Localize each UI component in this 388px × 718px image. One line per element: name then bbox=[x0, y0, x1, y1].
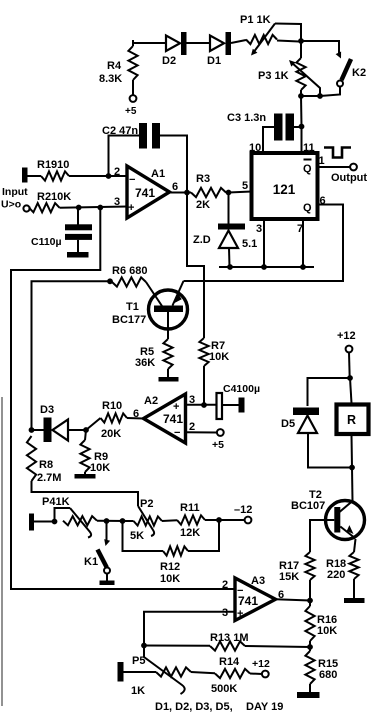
svg-text:741: 741 bbox=[163, 412, 183, 426]
wire input bar to R1 bbox=[28, 175, 42, 177]
junction K1 top bbox=[104, 518, 110, 524]
relay R box bbox=[337, 405, 369, 435]
wire P2 to R11 bbox=[162, 519, 177, 522]
svg-text:121: 121 bbox=[273, 182, 296, 197]
svg-text:R1910: R1910 bbox=[37, 159, 69, 171]
svg-text:+: + bbox=[173, 401, 179, 413]
T2 collector lead diagonal bbox=[340, 501, 353, 512]
svg-text:D2: D2 bbox=[162, 55, 176, 67]
svg-text:1: 1 bbox=[319, 155, 325, 167]
wire pin7 down bbox=[302, 219, 304, 267]
wire C2 left leg bbox=[109, 136, 140, 177]
resistor R9 bbox=[80, 440, 89, 472]
junction R3/zener bbox=[226, 190, 232, 196]
svg-text:Q: Q bbox=[303, 202, 312, 214]
wire R2 to pin3 of A1 bbox=[60, 207, 128, 208]
resistor R2 bbox=[29, 203, 60, 212]
resistor R13 bbox=[210, 641, 245, 650]
wire R18 bottom bbox=[353, 579, 355, 599]
wire P5 to R14 bbox=[191, 672, 215, 673]
potentiometer P2 wiper diagonal bbox=[138, 506, 154, 536]
switch K2 blade bbox=[342, 59, 352, 80]
wire P1 wiper bridge bbox=[275, 24, 301, 42]
wire relay bottom lead bbox=[351, 435, 354, 468]
resistor R8 bbox=[27, 436, 36, 481]
wire relay top lead bbox=[350, 378, 352, 403]
resistor R14 bbox=[215, 669, 250, 678]
capacitor C3 left plate bbox=[274, 114, 283, 141]
diode D1 triangle bbox=[210, 36, 224, 52]
potentiometer P3 wiper diagonal bbox=[291, 62, 320, 96]
svg-text:R8: R8 bbox=[39, 459, 53, 471]
page edge artifact line bbox=[1, 397, 3, 706]
wire D1 to P1 bbox=[231, 40, 246, 43]
capacitor C3 right plate bbox=[286, 114, 295, 141]
junction R11/R12 bbox=[216, 517, 222, 523]
svg-text:+5: +5 bbox=[125, 106, 137, 117]
svg-text:–12: –12 bbox=[234, 504, 252, 516]
wire ground bus under 121 bbox=[219, 266, 314, 268]
wire A3 output bbox=[276, 599, 311, 600]
terminal +5 at A2 bbox=[217, 429, 224, 436]
op-amp A1 bbox=[127, 166, 170, 218]
junction feedback tap bbox=[97, 205, 103, 211]
svg-text:Input: Input bbox=[2, 186, 28, 198]
wire A2 out to R10 bbox=[127, 417, 144, 420]
svg-text:P2: P2 bbox=[140, 498, 153, 510]
wire D2 to D1 bbox=[187, 42, 211, 44]
svg-text:−: − bbox=[237, 585, 243, 597]
T1 base lead diagonal bbox=[146, 282, 162, 306]
svg-text:K1: K1 bbox=[84, 556, 98, 568]
junction P5/R13 bbox=[141, 643, 147, 649]
svg-text:680: 680 bbox=[319, 669, 337, 681]
resistor R16 bbox=[305, 606, 314, 641]
switch K2 fixed contact arrow bbox=[336, 52, 342, 59]
wire pin11 down bbox=[301, 127, 303, 154]
ground bar below K1 bbox=[100, 581, 115, 586]
junction A3 out/R17/R16 bbox=[307, 598, 313, 604]
junction P2/R12 bbox=[120, 518, 126, 524]
diode D3 cathode bar bbox=[44, 418, 52, 443]
resistor R15 bbox=[305, 651, 314, 684]
wire D5 bottom bbox=[308, 433, 352, 468]
op-amp A3 bbox=[235, 578, 276, 621]
wire zener bottom lead bbox=[228, 248, 231, 267]
junction P4 left bbox=[52, 519, 58, 525]
wire T2 base to R17 bbox=[310, 520, 334, 552]
wire pin1 to output bbox=[318, 166, 351, 168]
svg-text:2: 2 bbox=[114, 166, 120, 178]
svg-text:R12: R12 bbox=[160, 561, 180, 573]
IC U1 monostable 121 box bbox=[252, 153, 318, 219]
svg-text:10K: 10K bbox=[209, 351, 229, 363]
svg-text:R210K: R210K bbox=[37, 191, 71, 203]
resistor R18 bbox=[349, 552, 358, 579]
wire R9 top lead bbox=[85, 430, 86, 440]
wire R1 to pin2 bbox=[69, 175, 127, 177]
svg-text:20K: 20K bbox=[101, 428, 121, 440]
capacitor C2 right plate bbox=[152, 123, 160, 149]
junction pin3/bus bbox=[261, 264, 267, 270]
resistor R6 bbox=[112, 277, 146, 286]
wire P3 bottom lead bbox=[300, 90, 302, 96]
wire R12 branch bbox=[123, 521, 164, 551]
switch K2 pivot bbox=[337, 81, 343, 87]
svg-text:D5: D5 bbox=[281, 418, 295, 430]
zener Z.D triangle bbox=[219, 231, 238, 249]
wire R9 bottom lead bbox=[84, 472, 86, 475]
resistor R10 bbox=[101, 413, 128, 422]
svg-text:T1: T1 bbox=[126, 301, 139, 313]
junction A1 output bbox=[184, 190, 190, 196]
wire R4 bottom lead bbox=[132, 80, 134, 95]
svg-text:10K: 10K bbox=[317, 625, 337, 637]
svg-text:A3: A3 bbox=[251, 575, 265, 587]
diode D5 cathode bar bbox=[293, 408, 319, 416]
junction +12/D5/relay bbox=[347, 375, 353, 381]
wire C1 stem top bbox=[77, 208, 79, 226]
wire D3 to node bbox=[68, 429, 86, 431]
svg-text:5: 5 bbox=[242, 180, 248, 192]
terminal bar input R1 bbox=[22, 168, 28, 183]
svg-text:2: 2 bbox=[222, 579, 228, 591]
wire zener top lead bbox=[228, 193, 230, 224]
resistor R1 bbox=[41, 171, 69, 180]
terminal Output bbox=[350, 164, 357, 171]
resistor R11 bbox=[177, 515, 205, 524]
junction pin7/bus bbox=[300, 264, 306, 270]
junction P3 bottom bbox=[298, 93, 304, 99]
wire pin3 node to left bus to A3 pin2 bbox=[11, 208, 235, 590]
wire C2 right leg bbox=[160, 136, 187, 193]
svg-text:BC177: BC177 bbox=[112, 314, 146, 326]
svg-text:3: 3 bbox=[222, 607, 228, 619]
resistor R5 bbox=[163, 339, 172, 369]
svg-text:D1: D1 bbox=[207, 55, 221, 67]
wire T2 collector bbox=[351, 468, 354, 502]
svg-text:R13 1M: R13 1M bbox=[210, 632, 249, 644]
svg-text:2: 2 bbox=[189, 421, 195, 433]
T2 emitter lead diagonal bbox=[340, 527, 355, 539]
node P1/P3/K2 top bbox=[298, 38, 304, 44]
T2 base bar bbox=[334, 507, 340, 533]
capacitor C1 bottom plate bbox=[65, 234, 92, 240]
ground bar below R18 bbox=[344, 598, 365, 603]
capacitor C4 right bar terminal bbox=[222, 404, 239, 406]
terminal bar P5 bbox=[118, 662, 124, 682]
junction A2 pin3 node bbox=[201, 402, 207, 408]
svg-text:U>o: U>o bbox=[1, 199, 21, 211]
junction zener/bus bbox=[227, 264, 233, 270]
svg-text:3: 3 bbox=[189, 394, 195, 406]
wire T2 emitter to R18 bbox=[354, 539, 356, 552]
wire R16 leads bbox=[309, 601, 311, 607]
terminal -12 bbox=[245, 517, 252, 524]
svg-text:Output: Output bbox=[331, 172, 367, 184]
wire R3 to pin5 bbox=[229, 192, 252, 193]
junction C3/pin11 bbox=[299, 124, 305, 130]
ground bar below R9 bbox=[75, 474, 96, 479]
svg-text:3: 3 bbox=[114, 196, 120, 208]
svg-text:12K: 12K bbox=[180, 527, 200, 539]
svg-text:6: 6 bbox=[172, 181, 178, 193]
svg-text:A2: A2 bbox=[144, 395, 158, 407]
wire R6 to inner left bus to D3 bbox=[32, 281, 111, 430]
wire C3 right to pin11 node bbox=[294, 126, 302, 128]
svg-text:C4100µ: C4100µ bbox=[223, 383, 260, 395]
junction R16/R15/R13 bbox=[307, 644, 313, 650]
resistor R7 bbox=[199, 338, 208, 366]
node inner bus / D3 / R8 bbox=[29, 427, 35, 433]
potentiometer P4 track bbox=[63, 516, 97, 525]
output pulse symbol bbox=[324, 148, 351, 158]
resistor R17 bbox=[305, 552, 314, 580]
T1 emitter lead bbox=[173, 281, 184, 306]
wire R12 to R11 junction bbox=[188, 520, 219, 551]
potentiometer P1 wiper diagonal bbox=[253, 24, 275, 54]
svg-text:R6 680: R6 680 bbox=[112, 265, 147, 277]
wire R15 leads bbox=[309, 647, 311, 651]
wire R11 to -12 bbox=[205, 519, 245, 521]
junction pin2/C2 bbox=[106, 173, 112, 179]
diode D3 triangle bbox=[53, 420, 69, 441]
wire R14 to +12 bbox=[250, 673, 262, 676]
svg-text:−: − bbox=[129, 174, 135, 186]
wire P3 junction down to C3 node bbox=[300, 96, 303, 126]
svg-text:36K: 36K bbox=[135, 357, 155, 369]
svg-text:2K: 2K bbox=[196, 199, 210, 211]
terminal input bbox=[23, 205, 29, 211]
T1 emitter arrow (PNP) bbox=[174, 293, 182, 303]
wire P1 right to node bbox=[277, 41, 299, 42]
ground bar below R5 bbox=[159, 377, 179, 382]
capacitor C2 left plate bbox=[139, 123, 147, 149]
potentiometer P2 track bbox=[134, 516, 163, 525]
capacitor C4 left plate (outline) bbox=[217, 393, 223, 419]
terminal bar P4 bbox=[29, 514, 34, 531]
svg-text:P1 1K: P1 1K bbox=[240, 14, 271, 26]
wire R13 left lead bbox=[144, 645, 210, 647]
svg-text:Z.D: Z.D bbox=[193, 234, 211, 246]
wire P4 wiper bridge bbox=[55, 508, 71, 522]
svg-text:R: R bbox=[347, 413, 356, 427]
Qbar overbar bbox=[304, 159, 312, 161]
wire D3 bar to bus bbox=[32, 429, 44, 431]
svg-text:500K: 500K bbox=[211, 683, 237, 695]
wire R17 bottom bbox=[309, 580, 311, 601]
svg-text:+: + bbox=[237, 608, 243, 620]
T2 emitter arrow (NPN) bbox=[347, 525, 354, 534]
wire R5 bottom lead bbox=[167, 369, 169, 378]
wire A1 out down jog to R7 bbox=[187, 193, 204, 339]
svg-text:DAY 19: DAY 19 bbox=[246, 701, 283, 713]
ground bar below R15 bbox=[297, 692, 320, 698]
potentiometer P1 track bbox=[246, 35, 277, 44]
svg-text:C110µ: C110µ bbox=[31, 236, 62, 248]
wire C3 left to pin10 bbox=[263, 127, 274, 153]
wire R8 bottom to P2 wiper bbox=[32, 481, 139, 506]
wire A2 pin3 bbox=[185, 404, 217, 406]
svg-text:741: 741 bbox=[135, 186, 155, 200]
wire pin6 of 121 to T1 emitter line bbox=[184, 205, 344, 282]
svg-text:5K: 5K bbox=[130, 530, 144, 542]
wire R4 top lead bbox=[132, 40, 134, 46]
diode D2 triangle bbox=[166, 36, 180, 52]
wire A3 pin3 to P5 node bbox=[144, 612, 235, 646]
wire R15 bottom bbox=[309, 684, 311, 693]
wire K1 to ground bbox=[106, 574, 108, 582]
svg-text:R11: R11 bbox=[180, 502, 200, 514]
capacitor C1 top plate bbox=[65, 224, 92, 230]
diode D2 cathode bar bbox=[181, 32, 187, 55]
T1 collector lead bbox=[167, 312, 169, 339]
wire P4 bar to dot bbox=[34, 521, 56, 523]
svg-text:10K: 10K bbox=[90, 462, 110, 474]
svg-text:P41K: P41K bbox=[42, 496, 70, 508]
svg-text:1K: 1K bbox=[131, 685, 145, 697]
svg-text:P3 1K: P3 1K bbox=[258, 70, 289, 82]
wire to D5 top bbox=[308, 378, 351, 406]
terminal +5 under R4 bbox=[130, 95, 137, 102]
svg-text:A1: A1 bbox=[151, 168, 165, 180]
svg-text:R10: R10 bbox=[102, 400, 122, 412]
terminal +12 bottom bbox=[262, 671, 269, 678]
wire +12 down bbox=[348, 353, 351, 379]
svg-text:220: 220 bbox=[327, 569, 345, 581]
switch K1 fixed contact arrow bbox=[104, 539, 110, 546]
P3 wiper arrowhead bbox=[289, 60, 296, 67]
diode D1 cathode bar bbox=[226, 32, 232, 55]
T1 base bar bbox=[154, 306, 183, 313]
svg-text:3: 3 bbox=[256, 223, 262, 235]
svg-text:R3: R3 bbox=[196, 173, 210, 185]
diode D5 triangle bbox=[298, 416, 317, 434]
svg-text:8.3K: 8.3K bbox=[99, 73, 122, 85]
svg-text:Q: Q bbox=[303, 163, 312, 175]
svg-text:+5: +5 bbox=[212, 439, 224, 451]
wire input to R2 bbox=[28, 207, 31, 210]
wire A2 pin2 to +5 bbox=[186, 431, 218, 433]
ground bar below C1 bbox=[67, 252, 89, 258]
wire node to P3 top bbox=[300, 41, 302, 58]
op-amp A2 bbox=[144, 394, 186, 443]
svg-text:R4: R4 bbox=[107, 60, 122, 72]
svg-text:+12: +12 bbox=[337, 330, 356, 342]
svg-text:R14: R14 bbox=[219, 656, 240, 668]
wire R7 bottom lead bbox=[203, 366, 205, 405]
terminal +12 bbox=[346, 346, 353, 353]
potentiometer P3 track bbox=[296, 58, 305, 90]
resistor R3 bbox=[191, 188, 226, 197]
potentiometer P5 wiper diagonal bbox=[144, 646, 185, 695]
svg-text:5.1: 5.1 bbox=[242, 238, 257, 250]
wire R4 top to D2 bbox=[133, 42, 166, 44]
svg-text:BC107: BC107 bbox=[291, 500, 325, 512]
svg-text:10K: 10K bbox=[160, 573, 180, 585]
junction C1 top bbox=[76, 205, 82, 211]
wire P5 left lead bbox=[124, 671, 157, 673]
svg-text:K2: K2 bbox=[352, 67, 366, 79]
potentiometer P4 wiper diagonal bbox=[70, 508, 91, 538]
junction K2/P3 bottom bbox=[317, 93, 323, 99]
transistor T1 BC177 circle bbox=[149, 290, 188, 329]
svg-text:+: + bbox=[128, 202, 134, 214]
svg-text:C3 1.3n: C3 1.3n bbox=[227, 112, 266, 124]
transistor T2 BC107 circle bbox=[326, 501, 365, 540]
node D3/R9/R10 bbox=[83, 427, 89, 433]
resistor R12 bbox=[163, 546, 188, 555]
wire P3 bottom junction bbox=[301, 95, 320, 97]
wire A1 out to R3 bbox=[169, 192, 191, 194]
zener Z.D cathode bar bbox=[218, 224, 245, 230]
svg-text:−: − bbox=[174, 427, 180, 439]
wire K1 down bbox=[106, 521, 108, 542]
wire R10 to D3 node diagonal bbox=[86, 418, 101, 430]
junction R6 left bbox=[107, 278, 113, 284]
junction relay/D5/T2 bbox=[349, 465, 355, 471]
svg-text:D1, D2, D3, D5,: D1, D2, D3, D5, bbox=[155, 701, 233, 713]
switch K1 pivot bbox=[104, 568, 110, 574]
potentiometer P5 track bbox=[156, 667, 191, 676]
wire R13 to R16 junction bbox=[245, 646, 310, 647]
svg-text:D3: D3 bbox=[40, 404, 54, 416]
wire pin3 of 121 down bbox=[263, 219, 265, 267]
wire C1 stem bottom bbox=[77, 240, 79, 252]
P1 wiper arrowhead bbox=[251, 49, 257, 56]
svg-text:2.7M: 2.7M bbox=[37, 472, 61, 484]
wire K2 bottom bbox=[320, 87, 340, 96]
resistor R4 bbox=[128, 46, 137, 80]
switch K1 blade bbox=[98, 550, 107, 568]
wire P4 to K1 node bbox=[97, 520, 134, 522]
svg-text:15K: 15K bbox=[279, 571, 299, 583]
wire R16 bottom bbox=[309, 641, 311, 647]
wire node to K2 bbox=[301, 41, 339, 55]
svg-text:+12: +12 bbox=[252, 658, 270, 670]
